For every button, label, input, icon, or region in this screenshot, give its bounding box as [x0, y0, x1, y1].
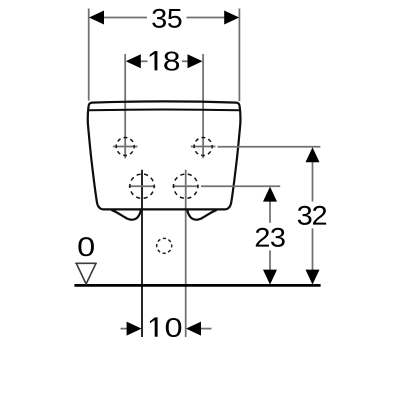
- arrow 35 right: [224, 11, 239, 25]
- drain dashed circle: [157, 238, 172, 253]
- centerline through upper-right hole (ext of dim 18): [202, 54, 204, 158]
- upper-left fixing hole: [113, 138, 138, 156]
- centerline through upper-left hole (ext of dim 18): [124, 54, 126, 158]
- label 23: [256, 228, 285, 247]
- bidet body outline: [88, 101, 241, 209]
- extension line left of dim 35: [88, 9, 90, 101]
- arrow 10 right (pointing left): [186, 322, 201, 336]
- dim line 18 segments: [140, 60, 188, 62]
- label 32: [298, 206, 326, 225]
- dim line 35 segments: [104, 17, 225, 19]
- ground line: [74, 284, 320, 287]
- arrow 18 left: [126, 54, 141, 68]
- dim line 32 vertical segments: [312, 162, 314, 271]
- label 18: [150, 51, 179, 71]
- datum 0 label: [78, 237, 93, 256]
- rim front edge line: [89, 109, 239, 112]
- arrow 23 bottom: [263, 270, 277, 285]
- extension line right of dim 35: [238, 9, 240, 102]
- centerline through lower-left hole down to dim 10: [141, 170, 143, 337]
- label 35: [152, 9, 181, 28]
- arrow 18 right: [188, 54, 203, 68]
- left foot: [112, 210, 141, 220]
- arrow 32 top: [306, 147, 320, 162]
- dim line 23 vertical segments: [269, 201, 271, 270]
- label 10: [150, 317, 181, 337]
- arrow 35 left: [89, 11, 104, 25]
- arrow 23 top: [263, 187, 277, 202]
- lower-left fixing hole: [129, 174, 156, 198]
- datum level triangle: [75, 263, 97, 284]
- centerline through lower-right hole down to dim 10: [185, 170, 187, 337]
- right foot: [188, 210, 217, 220]
- upper-right fixing hole: [191, 138, 216, 156]
- arrow 10 left (pointing right): [127, 322, 142, 336]
- arrow 32 bottom: [306, 270, 320, 285]
- lower-right fixing hole: [172, 174, 199, 198]
- leader from lower-right hole to dim 23: [201, 185, 280, 187]
- leader from upper-right hole to dim 32: [218, 146, 321, 148]
- dim line 10 tails: [121, 328, 212, 330]
